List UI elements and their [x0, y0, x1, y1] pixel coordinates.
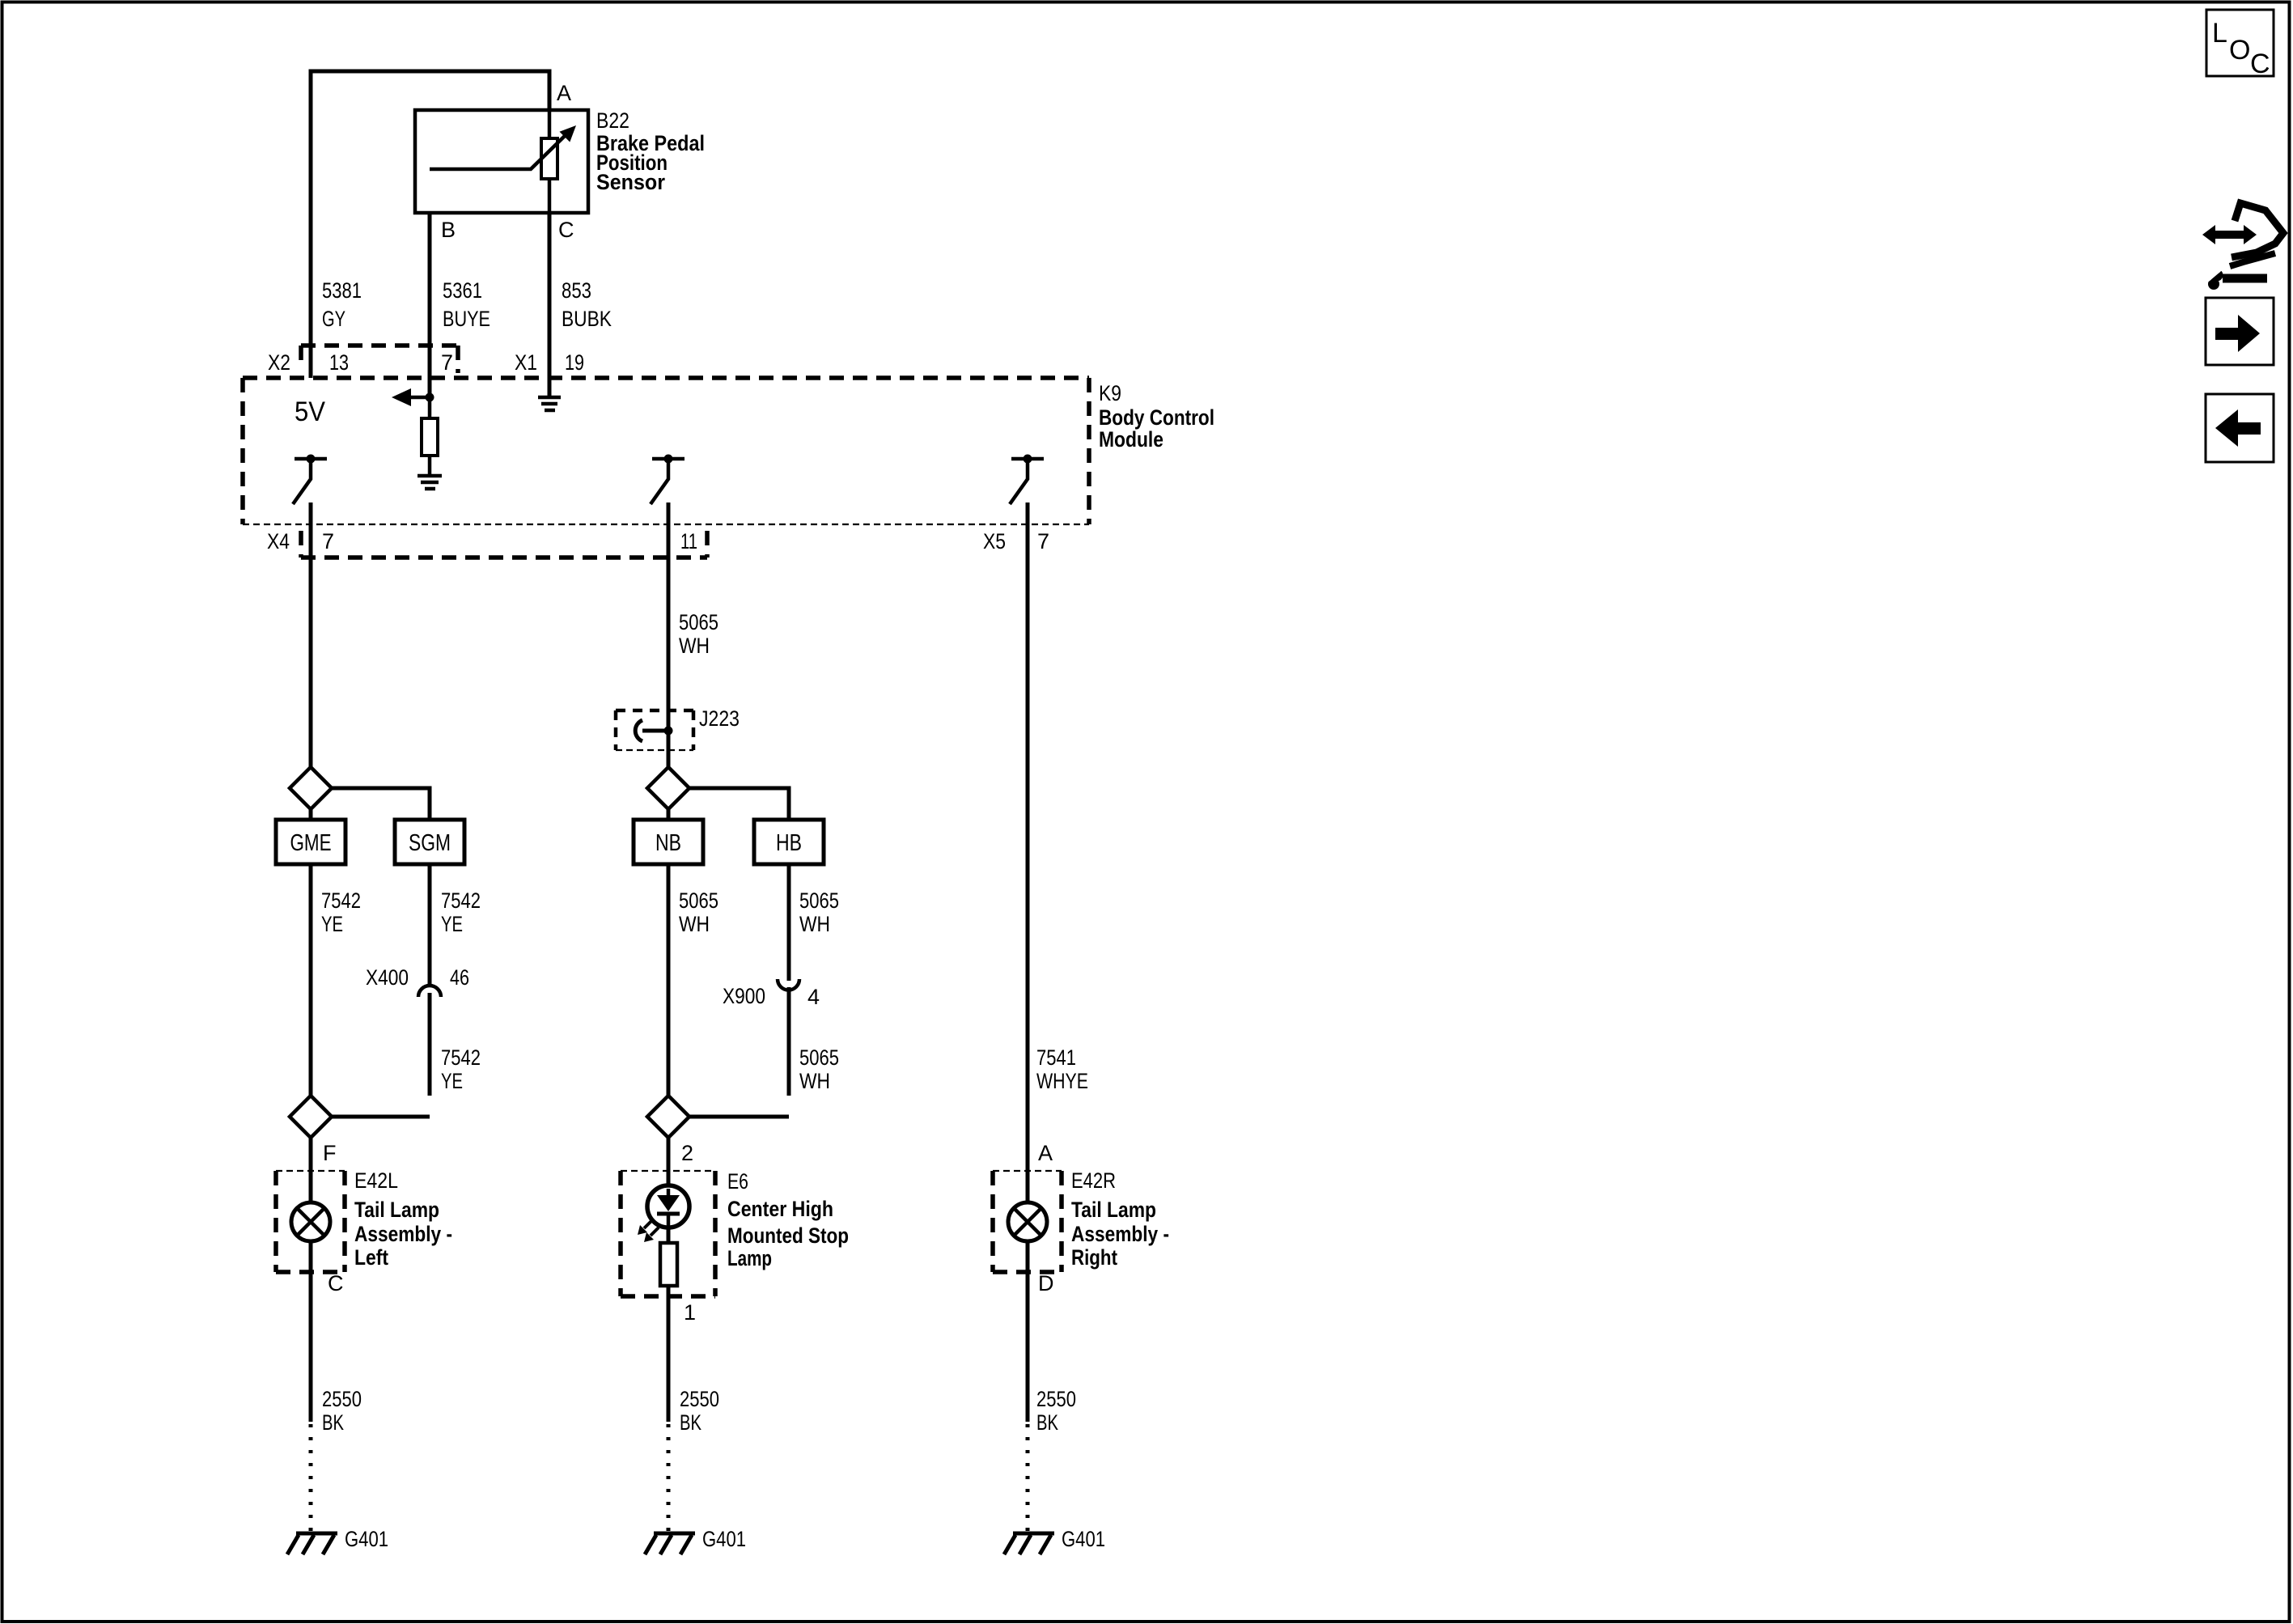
- wire GME down 7542 YE: [309, 864, 313, 1096]
- svg-text:A: A: [1038, 1141, 1053, 1165]
- nav arrow right box: [2206, 298, 2274, 365]
- wire diamond to E6 pin 2: [667, 1138, 671, 1171]
- svg-text:2550: 2550: [1036, 1387, 1076, 1411]
- dotted ground wire middle: [667, 1424, 671, 1534]
- splice diamond node middle top: [647, 767, 689, 809]
- svg-text:X1: X1: [515, 350, 537, 375]
- svg-text:7: 7: [322, 529, 334, 553]
- svg-text:Body Control: Body Control: [1099, 405, 1214, 430]
- wire right branch BCM X5-7 down to E42R: [1026, 502, 1030, 1171]
- svg-text:G401: G401: [702, 1527, 746, 1551]
- inline connector X900 pin 4: [723, 979, 820, 1096]
- BCM output switch middle: [651, 455, 685, 505]
- svg-text:E6: E6: [727, 1169, 748, 1194]
- E42L tail lamp box: [276, 1171, 345, 1272]
- wire top loop from BCM X2-13 to sensor pin A: [311, 71, 549, 378]
- svg-text:11: 11: [680, 529, 697, 553]
- wire HB down 5065 WH: [787, 864, 791, 981]
- svg-text:13: 13: [329, 350, 349, 375]
- svg-text:19: 19: [565, 350, 584, 375]
- wire diamond to SGM: [332, 788, 430, 820]
- svg-text:D: D: [1038, 1271, 1054, 1295]
- wire diamond to GME: [309, 809, 313, 820]
- svg-text:C: C: [328, 1271, 344, 1295]
- svg-text:BK: BK: [322, 1410, 344, 1435]
- potentiometer element of B22: [541, 110, 557, 213]
- dotted ground wire left: [309, 1424, 313, 1534]
- svg-text:X2: X2: [268, 350, 290, 375]
- svg-text:7542: 7542: [441, 888, 481, 913]
- harness routing icon: [2202, 203, 2283, 290]
- svg-text:Right: Right: [1071, 1245, 1117, 1270]
- nav arrow left box: [2206, 394, 2274, 462]
- svg-text:G401: G401: [1062, 1527, 1105, 1551]
- wire NB down 5065 WH: [667, 864, 671, 1096]
- svg-text:WH: WH: [679, 912, 710, 936]
- BCM K9 dashed box: [243, 378, 1089, 524]
- signal arrow and junction at BCM pin X2-7: [392, 388, 434, 406]
- svg-text:C: C: [2250, 49, 2270, 79]
- svg-text:J223: J223: [699, 706, 740, 731]
- svg-text:BK: BK: [680, 1410, 701, 1435]
- svg-text:BK: BK: [1036, 1410, 1058, 1435]
- svg-text:1: 1: [684, 1300, 696, 1325]
- svg-text:E42R: E42R: [1071, 1168, 1116, 1193]
- svg-text:YE: YE: [441, 912, 463, 936]
- wire middle branch BCM X4-11 down through J223: [667, 502, 671, 767]
- svg-text:Lamp: Lamp: [727, 1246, 772, 1270]
- E6 stop lamp box: [621, 1171, 715, 1296]
- LED symbol E6: [638, 1171, 689, 1243]
- B22 name label: [596, 131, 705, 194]
- svg-text:WH: WH: [679, 634, 710, 658]
- svg-text:7: 7: [1037, 529, 1049, 553]
- HB box: [754, 820, 824, 864]
- lamp symbol E42R: [1008, 1171, 1047, 1272]
- svg-text:YE: YE: [321, 912, 343, 936]
- svg-text:5381: 5381: [322, 278, 362, 303]
- pull-down resistor inside BCM: [422, 397, 438, 475]
- svg-text:4: 4: [807, 985, 820, 1009]
- svg-text:X5: X5: [983, 529, 1006, 553]
- svg-text:X400: X400: [366, 965, 409, 990]
- E42R tail lamp box: [993, 1171, 1062, 1272]
- svg-text:A: A: [557, 81, 571, 105]
- ground symbol at BCM pin X1-19: [538, 397, 561, 410]
- svg-text:E42L: E42L: [354, 1168, 398, 1193]
- svg-text:BUBK: BUBK: [562, 307, 612, 331]
- svg-text:5V: 5V: [295, 396, 325, 427]
- svg-text:X900: X900: [723, 984, 765, 1008]
- K9 name label: [1099, 405, 1214, 452]
- BCM output switch right: [1010, 455, 1044, 505]
- svg-text:BUYE: BUYE: [443, 307, 490, 331]
- GME box: [276, 820, 345, 864]
- merge diamond node middle bottom: [647, 1096, 689, 1138]
- inline connector X400 pin 46: [366, 965, 469, 1096]
- svg-text:Tail Lamp: Tail Lamp: [1071, 1198, 1156, 1222]
- splice J223: [616, 710, 693, 750]
- svg-text:WHYE: WHYE: [1036, 1069, 1088, 1093]
- svg-text:Tail Lamp: Tail Lamp: [354, 1198, 439, 1222]
- ground symbol under resistor: [417, 476, 442, 489]
- svg-text:7: 7: [441, 350, 453, 375]
- svg-text:5361: 5361: [443, 278, 482, 303]
- svg-text:B22: B22: [596, 108, 629, 133]
- splice diamond node left top: [290, 767, 332, 809]
- svg-text:Module: Module: [1099, 427, 1163, 452]
- E6 name label: [727, 1197, 849, 1270]
- svg-text:YE: YE: [441, 1069, 463, 1093]
- svg-text:2550: 2550: [322, 1387, 362, 1411]
- wire E6 pin 1 down 2550 BK: [667, 1296, 671, 1422]
- E42L name label: [354, 1198, 452, 1270]
- svg-text:5065: 5065: [679, 888, 718, 913]
- svg-text:2550: 2550: [680, 1387, 719, 1411]
- svg-text:SGM: SGM: [409, 830, 451, 856]
- wire E42L pin C down 2550 BK: [309, 1272, 313, 1422]
- svg-text:5065: 5065: [679, 610, 718, 634]
- svg-text:Mounted Stop: Mounted Stop: [727, 1223, 849, 1248]
- svg-text:Left: Left: [354, 1245, 388, 1270]
- LOC box: [2206, 10, 2274, 79]
- svg-text:853: 853: [562, 278, 591, 303]
- svg-text:G401: G401: [345, 1527, 388, 1551]
- svg-text:HB: HB: [776, 830, 802, 856]
- svg-text:C: C: [558, 218, 574, 242]
- wire diamond to NB: [667, 809, 671, 820]
- svg-text:NB: NB: [655, 830, 681, 856]
- svg-text:Assembly -: Assembly -: [1071, 1222, 1169, 1246]
- svg-text:5065: 5065: [799, 888, 839, 913]
- wire SGM branch into left diamond: [332, 1115, 430, 1119]
- merge diamond node left bottom: [290, 1096, 332, 1138]
- potentiometer wiper arrow: [430, 125, 576, 169]
- svg-text:Center High: Center High: [727, 1197, 833, 1221]
- SGM box: [395, 820, 464, 864]
- svg-text:5065: 5065: [799, 1045, 839, 1070]
- dotted ground wire right: [1026, 1424, 1030, 1534]
- svg-text:Sensor: Sensor: [596, 170, 665, 194]
- svg-text:O: O: [2229, 35, 2250, 66]
- svg-text:GY: GY: [322, 307, 345, 331]
- svg-text:7542: 7542: [321, 888, 361, 913]
- wire E42R pin D down 2550 BK: [1026, 1272, 1030, 1422]
- wire left branch BCM X4-7 down to splice diamond: [309, 502, 313, 767]
- svg-text:46: 46: [450, 965, 469, 990]
- sensor B22 box: [415, 110, 588, 213]
- svg-text:WH: WH: [799, 1069, 830, 1093]
- svg-text:Assembly -: Assembly -: [354, 1222, 452, 1246]
- NB box: [634, 820, 703, 864]
- svg-text:WH: WH: [799, 912, 830, 936]
- ground G401 right: [1004, 1533, 1054, 1554]
- wire HB branch into middle diamond: [689, 1115, 789, 1119]
- connector X2 bracket: [301, 346, 458, 373]
- svg-text:7542: 7542: [441, 1045, 481, 1070]
- wire diamond to HB: [689, 788, 789, 820]
- lamp symbol E42L: [291, 1171, 330, 1272]
- svg-text:GME: GME: [290, 830, 332, 856]
- connector X4 bracket: [301, 531, 707, 558]
- E42R name label: [1071, 1198, 1169, 1270]
- wire 853 BUBK (B22 C to BCM X1-19): [548, 213, 552, 396]
- svg-text:L: L: [2212, 18, 2227, 49]
- svg-text:X4: X4: [267, 529, 290, 553]
- wire SGM down 7542 YE: [428, 864, 432, 986]
- svg-text:7541: 7541: [1036, 1045, 1076, 1070]
- ground G401 middle: [645, 1533, 695, 1554]
- ground G401 left: [287, 1533, 337, 1554]
- svg-text:B: B: [441, 218, 456, 242]
- resistor inside E6: [660, 1243, 677, 1296]
- wire 5361 BUYE (B22 B to BCM X2-7): [428, 213, 432, 397]
- svg-text:2: 2: [681, 1141, 693, 1165]
- wire diamond to E42L pin F: [309, 1138, 313, 1171]
- svg-text:F: F: [323, 1141, 337, 1165]
- BCM output switch left: [293, 455, 327, 505]
- svg-text:K9: K9: [1099, 381, 1121, 405]
